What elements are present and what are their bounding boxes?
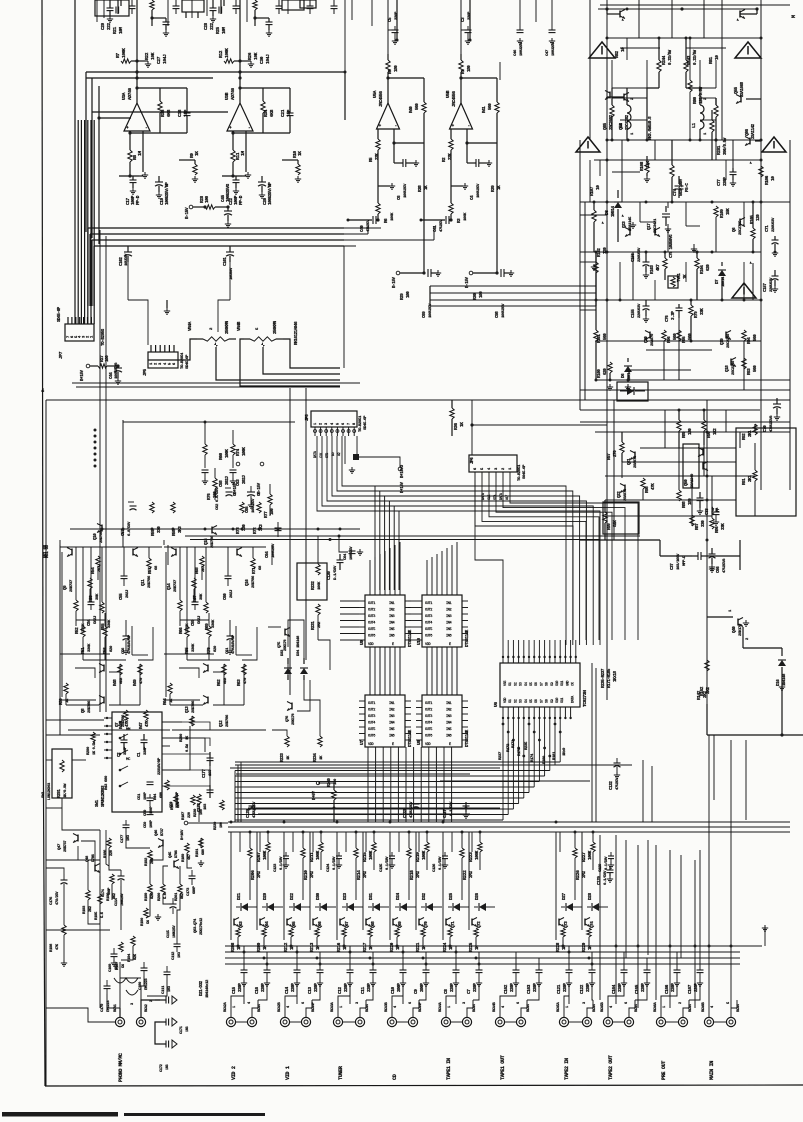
svg-text:Q21: Q21 — [628, 458, 632, 465]
capacitor C19 100U25V/NP — [155, 181, 163, 183]
svg-text:3: 3 — [583, 1002, 587, 1004]
svg-text:6K8: 6K8 — [166, 109, 172, 117]
svg-text:220P: 220P — [511, 983, 515, 992]
capacitor C172 103 with arrow — [160, 1043, 166, 1045]
left rail x46 vertical — [45, 400, 47, 1086]
wire feedback to inverting input — [467, 142, 497, 144]
transistor Q74 — [584, 919, 586, 926]
capacitor C171 103 with arrow — [160, 1021, 166, 1023]
ground — [139, 175, 143, 177]
svg-text:D786: D786 — [175, 849, 179, 858]
svg-text:R90: R90 — [708, 431, 712, 438]
svg-text:-: - — [468, 124, 470, 129]
left column wires lower — [45, 839, 47, 841]
svg-text:C14: C14 — [285, 987, 290, 994]
svg-text:IN4: IN4 — [446, 722, 452, 726]
svg-text:C133: C133 — [404, 809, 408, 818]
PSU extra horizontal stubs — [612, 171, 640, 173]
svg-text:100K: 100K — [224, 48, 230, 58]
svg-text:RCA5A: RCA5A — [557, 1001, 561, 1012]
svg-text:2SD786: 2SD786 — [226, 714, 230, 727]
svg-text:33K: 33K — [701, 308, 705, 315]
svg-text:270: 270 — [614, 450, 618, 457]
svg-text:2SC2705: 2SC2705 — [739, 220, 743, 235]
svg-text:-: - — [145, 126, 147, 131]
bus wires lineamp inputs — [344, 72, 346, 120]
svg-text:VDD: VDD — [425, 743, 431, 747]
svg-text:Q66: Q66 — [319, 921, 323, 928]
svg-text:R200: R200 — [158, 892, 162, 901]
svg-text:220P: 220P — [315, 983, 319, 992]
svg-text:2SB737: 2SB737 — [174, 579, 178, 592]
long verticals x290 x306 — [289, 388, 291, 695]
cell top rail — [164, 546, 266, 548]
svg-text:8: 8 — [353, 423, 357, 425]
svg-text:100K: 100K — [369, 850, 374, 860]
svg-text:0.1/50V: 0.1/50V — [385, 856, 390, 870]
wire feedback bottom to inverting input — [233, 131, 290, 133]
black page-edge bar 2 — [124, 1113, 265, 1116]
transistor Q6 2SC2705 — [739, 219, 741, 226]
transistor Q75 2SK170 — [284, 629, 286, 636]
svg-text:100: 100 — [220, 821, 224, 828]
transistor Q86 2SA1142 — [749, 138, 751, 145]
svg-text:R243: R243 — [687, 55, 692, 65]
capacitor C17 100P PP-D — [119, 175, 139, 177]
svg-text:R109: R109 — [721, 209, 725, 218]
svg-text:100P: 100P — [150, 805, 154, 814]
potentiometer VR4B 250KMN — [244, 338, 250, 340]
wire op-amp output to bus — [239, 72, 241, 78]
svg-text:AD746: AD746 — [230, 88, 236, 100]
svg-text:Q86: Q86 — [745, 129, 750, 136]
capacitor C55 202J — [123, 570, 125, 576]
top rails y383-387 — [72, 382, 360, 384]
svg-text:VDD: VDD — [425, 643, 431, 647]
svg-text:100U25V/NP: 100U25V/NP — [268, 182, 273, 205]
capacitor C33 PP — [715, 508, 717, 512]
svg-text:C9: C9 — [414, 989, 419, 994]
svg-text:RCA4: RCA4 — [737, 1003, 741, 1012]
svg-text:R7: R7 — [115, 53, 121, 58]
svg-text:330K: 330K — [108, 619, 112, 628]
svg-text:1: 1 — [448, 1006, 452, 1008]
wire output up — [460, 74, 462, 103]
svg-text:C5: C5 — [389, 17, 393, 22]
svg-text:330K: 330K — [192, 643, 196, 652]
svg-text:RCA5B: RCA5B — [601, 1001, 605, 1012]
svg-text:100U25V: 100U25V — [477, 183, 481, 198]
svg-text:R100: R100 — [598, 369, 602, 378]
svg-text:DTS6114E: DTS6114E — [409, 729, 413, 747]
svg-text:680P: 680P — [193, 885, 197, 894]
svg-text:Q63: Q63 — [240, 921, 244, 928]
svg-text:Q64: Q64 — [266, 921, 270, 928]
svg-text:R234: R234 — [314, 753, 318, 762]
vertical bundle down to U9/U10 tops — [374, 486, 376, 590]
svg-text:222: 222 — [210, 23, 215, 30]
svg-text:1Kx18: 1Kx18 — [614, 671, 618, 682]
svg-text:Q46: Q46 — [155, 829, 159, 836]
svg-text:2SA1142: 2SA1142 — [752, 123, 756, 139]
resistor R56 820 — [103, 626, 107, 637]
svg-text:C56: C56 — [122, 647, 126, 654]
svg-text:C27: C27 — [156, 56, 162, 64]
resistor R80 symbol — [689, 38, 691, 80]
svg-text:OUT6: OUT6 — [425, 735, 432, 739]
svg-text:4: 4 — [488, 467, 492, 470]
left long verticals to SW1 — [99, 230, 101, 712]
svg-text:C44: C44 — [110, 372, 114, 379]
svg-text:1N914: 1N914 — [722, 276, 726, 287]
transistor Q70 — [418, 919, 420, 926]
svg-text:S3: S3 — [520, 699, 524, 703]
resistor R71 68 — [251, 558, 255, 569]
svg-text:R281: R281 — [717, 145, 722, 155]
svg-text:R180: R180 — [543, 755, 547, 764]
transistor Q63 — [233, 919, 235, 926]
top row extra verticals — [96, 0, 98, 22]
svg-text:S2: S2 — [514, 699, 518, 703]
svg-text:DTS6114E: DTS6114E — [466, 729, 470, 747]
svg-text:470U16V/NP: 470U16V/NP — [127, 634, 132, 654]
box around Q50 stage — [736, 428, 796, 516]
svg-text:560: 560 — [689, 333, 693, 340]
svg-text:R235-R237: R235-R237 — [602, 668, 606, 688]
svg-text:IN3: IN3 — [446, 615, 452, 619]
wire inverting input down — [129, 131, 131, 150]
svg-text:1: 1 — [233, 1006, 237, 1008]
bus bundle horizontal y228-246 — [88, 227, 344, 229]
svg-text:S4: S4 — [525, 682, 529, 686]
svg-text:C8: C8 — [444, 989, 449, 994]
diode D7 1N914 — [721, 262, 723, 266]
transistor Q48 D786 — [94, 865, 96, 872]
svg-text:R230: R230 — [214, 821, 218, 830]
feedback resistor R41 560 — [461, 77, 497, 79]
svg-text:180: 180 — [395, 65, 399, 72]
svg-text:R99: R99 — [608, 523, 612, 530]
top cluster caps right — [212, 0, 214, 8]
capacitor C5 330P — [387, 0, 389, 54]
capacitor C44 100U25VG — [114, 367, 122, 369]
svg-text:C112: C112 — [172, 951, 176, 960]
transistor Q21 2SA970 — [634, 452, 636, 459]
svg-text:6: 6 — [302, 1002, 306, 1004]
svg-text:RCA4: RCA4 — [366, 1003, 370, 1012]
svg-text:6: 6 — [173, 362, 177, 365]
wire long drop to B-15V — [496, 143, 498, 273]
output transistor top right — [739, 11, 741, 18]
inductor L2 — [627, 105, 631, 129]
transistor Q12 2SD786 — [207, 697, 209, 704]
resistor R54 2K7 — [96, 556, 100, 567]
op-amp U5B JRC4556 — [450, 103, 473, 129]
svg-text:220P: 220P — [564, 983, 568, 992]
svg-text:680: 680 — [202, 848, 206, 855]
svg-text:47U25V: 47U25V — [440, 219, 444, 232]
transistor Q85 2SC2602 — [609, 92, 611, 99]
svg-text:2SD786: 2SD786 — [88, 700, 92, 713]
svg-text:R87: R87 — [696, 523, 700, 530]
op-amp U3A — [124, 103, 150, 131]
switch SW1 SPUN12K803 — [112, 712, 162, 812]
RCA jack RCA4 — [624, 1017, 633, 1026]
svg-text:100: 100 — [106, 355, 110, 362]
svg-text:R187: R187 — [182, 811, 186, 820]
svg-text:5.6: 5.6 — [101, 911, 105, 918]
transistor Q71 — [445, 919, 447, 926]
svg-text:C130: C130 — [328, 571, 332, 580]
svg-text:C28: C28 — [204, 23, 209, 30]
svg-text:470: 470 — [140, 677, 144, 684]
capacitor C30 104J — [255, 17, 269, 19]
svg-text:C177: C177 — [121, 834, 125, 843]
svg-text:OUT2: OUT2 — [368, 609, 375, 613]
svg-text:VSS: VSS — [504, 681, 508, 686]
wire non-inverting input down — [142, 131, 144, 172]
ladder verticals below U6 — [502, 718, 504, 820]
svg-text:100K: 100K — [316, 850, 321, 860]
svg-text:R62: R62 — [218, 679, 222, 686]
svg-text:C125: C125 — [380, 863, 384, 872]
svg-text:R240: R240 — [328, 778, 332, 787]
svg-text:5: 5 — [481, 467, 485, 470]
svg-text:IN3: IN3 — [446, 715, 452, 719]
svg-text:2K1: 2K1 — [749, 430, 753, 437]
svg-text:Q19: Q19 — [721, 338, 725, 345]
svg-text:330K: 330K — [88, 643, 92, 652]
svg-text:IN5: IN5 — [389, 628, 395, 632]
svg-text:R193: R193 — [83, 905, 87, 914]
transistor Q8 2SD786 — [103, 665, 105, 672]
svg-text:2SD786: 2SD786 — [192, 700, 196, 713]
svg-text:22K: 22K — [449, 153, 453, 160]
ground — [200, 860, 202, 863]
ground — [157, 914, 159, 917]
wire R36 node to JP6 area — [470, 423, 473, 426]
svg-text:1K: 1K — [170, 698, 174, 703]
svg-text:C172: C172 — [160, 1063, 164, 1072]
svg-text:R230: R230 — [194, 808, 198, 817]
capacitor C40 47U25V in input — [348, 219, 372, 221]
svg-text:D22: D22 — [290, 893, 295, 900]
top bus above matrix — [228, 821, 790, 823]
svg-text:S045-6P: S045-6P — [523, 464, 527, 479]
wires to D33/D34 cluster — [272, 730, 287, 736]
svg-text:1: 1 — [631, 132, 635, 135]
ground stub mid — [378, 185, 390, 187]
svg-text:100U25V/NP: 100U25V/NP — [165, 182, 170, 205]
svg-text:82K: 82K — [134, 953, 138, 960]
svg-text:TAPE1 IN: TAPE1 IN — [446, 1058, 452, 1080]
svg-text:C98: C98 — [496, 311, 500, 318]
capacitor C27 104J — [152, 17, 166, 19]
svg-text:R80: R80 — [693, 97, 698, 104]
svg-text:VDD: VDD — [368, 743, 374, 747]
svg-text:+: + — [379, 124, 382, 129]
svg-text:RCA2B: RCA2B — [278, 1001, 282, 1012]
svg-text:R92: R92 — [743, 433, 747, 440]
svg-text:25K170x12: 25K170x12 — [200, 917, 204, 935]
transistor Q56 2SC4382 — [623, 94, 625, 101]
svg-text:+: + — [126, 126, 129, 131]
svg-text:JRC4556: JRC4556 — [379, 91, 384, 107]
RCA jack RCA4 — [678, 1017, 687, 1026]
diodes D33 D34 1N4148 — [287, 658, 289, 664]
resistor R66 270K — [178, 600, 182, 611]
svg-text:C6: C6 — [398, 195, 402, 200]
svg-text:IN6: IN6 — [446, 635, 452, 639]
capacitor C56 470U16V/NP — [123, 635, 130, 637]
svg-text:B-15V: B-15V — [393, 277, 397, 288]
svg-text:S11: S11 — [561, 681, 565, 686]
svg-text:C132: C132 — [610, 781, 614, 790]
svg-text:1: 1 — [704, 132, 708, 135]
svg-text:E: E — [449, 743, 451, 747]
svg-text:100U25V: 100U25V — [502, 303, 506, 318]
resistor R62 6K8 — [222, 664, 226, 675]
svg-text:S9: S9 — [551, 682, 555, 686]
svg-text:C162: C162 — [504, 984, 509, 994]
wire ladder bus y765 — [503, 764, 632, 766]
connector JP5 S045-6P — [311, 411, 357, 427]
capacitor C22 100P PP-D — [222, 175, 242, 177]
phono jack RCA2 — [136, 1017, 145, 1026]
svg-text:C171: C171 — [180, 1025, 184, 1034]
svg-text:C167: C167 — [688, 984, 693, 994]
wire feedback top — [240, 87, 290, 89]
svg-text:R199: R199 — [145, 892, 149, 901]
svg-text:OUT1: OUT1 — [425, 702, 432, 706]
svg-text:100K: 100K — [243, 447, 247, 456]
svg-text:4: 4 — [394, 1005, 398, 1008]
svg-text:B737: B737 — [161, 827, 165, 836]
svg-text:D8: D8 — [605, 210, 610, 215]
RCA jack RCA6A — [656, 1017, 665, 1026]
svg-text:C71: C71 — [766, 225, 770, 232]
svg-text:U9: U9 — [360, 640, 365, 645]
svg-text:103: 103 — [168, 985, 172, 992]
svg-text:S10: S10 — [556, 681, 560, 686]
svg-text:-: - — [248, 126, 250, 131]
connector JP6 S045-6P — [469, 455, 517, 472]
svg-text:R35: R35 — [160, 109, 166, 117]
svg-text:1M: 1M — [137, 151, 143, 156]
svg-text:C165: C165 — [635, 984, 640, 994]
transistor Q72 — [471, 919, 473, 926]
svg-text:C126: C126 — [433, 863, 437, 872]
capacitor C6 100U25V — [393, 143, 395, 163]
verticals from lineamp down — [429, 286, 431, 306]
svg-text:10K: 10K — [150, 52, 156, 60]
PSU extra segments y260-300 — [619, 262, 621, 300]
column verticals — [442, 832, 444, 919]
RCA jack RCA4F — [301, 1017, 310, 1026]
svg-text:JP7: JP7 — [58, 351, 64, 359]
svg-text:2M2: 2M2 — [582, 871, 587, 878]
resistor R67 39K — [192, 578, 196, 589]
svg-text:Q70: Q70 — [425, 921, 429, 928]
svg-text:S6: S6 — [535, 682, 539, 686]
diode D8 1N914 — [617, 190, 619, 198]
svg-text:MAIN IN: MAIN IN — [709, 1061, 715, 1080]
svg-text:SD45-6P: SD45-6P — [364, 415, 368, 430]
svg-text:R95: R95 — [683, 336, 687, 343]
capacitor C20 100U25V/NP — [258, 181, 266, 183]
svg-text:VID 2: VID 2 — [231, 1066, 237, 1080]
wire horizontal y422 — [123, 421, 295, 423]
svg-text:R36: R36 — [454, 423, 459, 430]
svg-text:2: 2 — [631, 97, 635, 100]
svg-text:47K: 47K — [56, 943, 60, 950]
svg-text:Q11: Q11 — [142, 579, 146, 586]
resistor R55 330K — [100, 602, 104, 613]
svg-text:103: 103 — [204, 803, 208, 810]
svg-text:R44: R44 — [154, 793, 158, 800]
svg-text:R72: R72 — [254, 527, 258, 534]
top row extra caps — [131, 0, 133, 6]
transistor Q9 2SB737 — [71, 549, 73, 556]
svg-text:C16: C16 — [255, 987, 260, 994]
top cluster caps left — [109, 0, 111, 8]
svg-text:0.5W: 0.5W — [186, 743, 190, 752]
svg-text:R216: R216 — [337, 942, 342, 952]
resistor R28 100 — [205, 205, 215, 209]
svg-text:1K 0.5W: 1K 0.5W — [93, 741, 97, 755]
svg-text:R191: R191 — [196, 848, 200, 857]
PSU diagonal arrows — [622, 18, 625, 21]
svg-text:OB-15V: OB-15V — [258, 482, 262, 496]
capacitor C84 562J — [90, 598, 92, 602]
wire top cluster feed — [239, 0, 241, 61]
RCA jack RCA5B — [603, 1017, 612, 1026]
svg-text:100U25V: 100U25V — [121, 892, 125, 906]
wire feedback to inverting input — [394, 142, 424, 144]
capacitor C59 562J — [194, 598, 196, 602]
svg-text:D34 1N4148: D34 1N4148 — [297, 635, 301, 656]
svg-text:RH3.6W6x0.8: RH3.6W6x0.8 — [649, 116, 653, 140]
svg-text:4: 4 — [610, 1005, 614, 1008]
svg-text:B-15V: B-15V — [185, 207, 190, 219]
svg-text:C7: C7 — [467, 989, 472, 994]
svg-text:Q10: Q10 — [94, 533, 98, 540]
svg-text:Q14: Q14 — [168, 583, 172, 590]
wire top cluster feed — [136, 0, 138, 61]
svg-text:5: 5 — [256, 327, 260, 330]
svg-text:C155: C155 — [632, 309, 636, 318]
svg-text:U5B: U5B — [445, 90, 451, 98]
svg-text:100K: 100K — [391, 212, 395, 221]
svg-text:10M: 10M — [222, 27, 227, 34]
U7/U8 to U9/U10 vertical links — [369, 647, 371, 695]
wire — [282, 159, 298, 161]
svg-text:2SA1668: 2SA1668 — [741, 81, 745, 97]
svg-text:RCA4: RCA4 — [593, 1003, 597, 1012]
amp cells bottom rail — [68, 729, 162, 731]
svg-text:R61 68: R61 68 — [44, 544, 48, 558]
transistor Q68 — [365, 919, 367, 926]
svg-text:503/100V: 503/100V — [679, 178, 684, 196]
svg-text:8K2: 8K2 — [113, 892, 117, 899]
svg-text:100U25VG: 100U25VG — [226, 183, 231, 202]
svg-text:Q17: Q17 — [648, 223, 652, 230]
svg-text:R198: R198 — [50, 943, 54, 952]
wire PSU to right edge — [706, 704, 708, 735]
resistor R51 330K — [81, 626, 85, 637]
svg-text:IN6: IN6 — [446, 735, 452, 739]
svg-text:MPP-D: MPP-D — [683, 555, 687, 566]
